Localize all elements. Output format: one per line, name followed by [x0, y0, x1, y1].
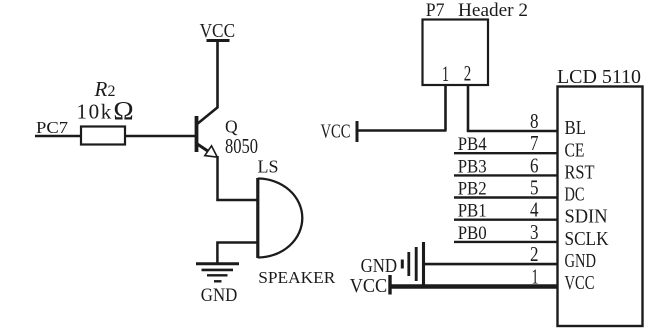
node label PB4	[458, 134, 487, 155]
pin number 2	[530, 242, 539, 266]
svg-text:1: 1	[442, 61, 449, 86]
label Q 8050	[225, 117, 258, 159]
svg-text:BL: BL	[565, 117, 587, 139]
pin number 4	[530, 198, 539, 222]
pin number 8	[530, 109, 539, 133]
svg-text:RST: RST	[565, 162, 595, 184]
pin number 7	[530, 131, 539, 155]
wire P7 pin1 down	[444, 85, 447, 131]
svg-text:LS: LS	[258, 157, 279, 177]
svg-text:PB2: PB2	[458, 179, 487, 200]
speaker LS	[258, 178, 303, 258]
svg-text:3: 3	[530, 220, 539, 244]
svg-text:8: 8	[530, 109, 539, 133]
pin number 3	[530, 220, 539, 244]
node PC7	[36, 118, 69, 137]
pin number 5	[530, 176, 539, 200]
svg-text:4: 4	[530, 198, 539, 222]
label R2	[94, 77, 116, 101]
svg-text:8050: 8050	[225, 134, 258, 158]
pin number 6	[530, 153, 539, 177]
pin 2 of P7	[464, 61, 472, 86]
svg-text:GND: GND	[201, 285, 238, 306]
svg-text:6: 6	[530, 153, 539, 177]
wire VCC to P7 pin1	[357, 129, 447, 132]
svg-text:LCD 5110: LCD 5110	[557, 67, 641, 88]
wire PB4 to LCD pin7	[454, 152, 557, 154]
svg-text:SCLK: SCLK	[565, 228, 609, 250]
wire P7 pin2 down	[467, 85, 470, 131]
svg-text:GND: GND	[565, 250, 597, 272]
svg-text:VCC: VCC	[350, 275, 388, 297]
svg-text:PB4: PB4	[458, 134, 487, 155]
svg-text:R: R	[94, 77, 108, 101]
pin 1 of P7	[442, 61, 449, 86]
power VCC top	[200, 20, 236, 42]
node label PB2	[458, 179, 487, 200]
svg-text:CE: CE	[565, 139, 585, 161]
svg-text:1: 1	[532, 264, 539, 288]
ground (near LCD)	[361, 242, 424, 286]
wire P7 pin2 to LCD pin8	[467, 130, 557, 133]
resistor R2	[81, 127, 125, 145]
svg-text:Header 2: Header 2	[458, 0, 528, 21]
svg-text:SPEAKER: SPEAKER	[258, 268, 335, 287]
wire PB2 to LCD pin5	[454, 196, 557, 198]
node label PB3	[458, 156, 487, 177]
IC U1 LCD 5110	[557, 67, 643, 326]
wire PB1 to LCD pin4	[454, 218, 557, 220]
wire PB3 to LCD pin6	[454, 174, 557, 176]
svg-text:10k: 10k	[77, 99, 113, 123]
wire collector to VCC	[216, 41, 219, 108]
wire emitter down to speaker	[216, 156, 257, 201]
label LS	[258, 157, 279, 177]
wire speaker bottom to ground	[216, 243, 257, 264]
svg-text:PB1: PB1	[458, 201, 487, 222]
transistor Q 8050	[197, 107, 219, 157]
wire PC7 to R2	[35, 135, 81, 137]
svg-text:PB0: PB0	[458, 223, 487, 244]
wire VCC to LCD pin1 (thick)	[390, 284, 557, 289]
svg-text:PB3: PB3	[458, 156, 487, 177]
power VCC left	[321, 121, 358, 143]
svg-text:7: 7	[530, 131, 539, 155]
svg-text:VCC: VCC	[321, 122, 351, 143]
value label 10k ohm	[77, 96, 135, 126]
svg-text:P7: P7	[426, 0, 445, 21]
node label PB1	[458, 201, 487, 222]
label SPEAKER	[258, 268, 335, 287]
svg-text:GND: GND	[361, 255, 398, 277]
wire R2 to Q base	[125, 135, 195, 137]
node label PB0	[458, 223, 487, 244]
svg-text:VCC: VCC	[200, 20, 236, 42]
ground (speaker)	[196, 264, 239, 306]
svg-text:2: 2	[530, 242, 539, 266]
svg-text:SDIN: SDIN	[565, 205, 608, 227]
connector P7 Header 2	[423, 0, 529, 85]
pin number 1	[532, 264, 539, 288]
wire PB0 to LCD pin3	[454, 241, 557, 243]
svg-text:2: 2	[464, 61, 472, 86]
svg-text:5: 5	[530, 176, 539, 200]
svg-text:DC: DC	[565, 184, 585, 206]
svg-text:Ω: Ω	[113, 96, 134, 126]
svg-text:PC7: PC7	[36, 118, 69, 137]
svg-text:VCC: VCC	[565, 272, 595, 294]
wire GND to LCD pin2	[424, 263, 558, 266]
power VCC bottom	[350, 275, 390, 297]
